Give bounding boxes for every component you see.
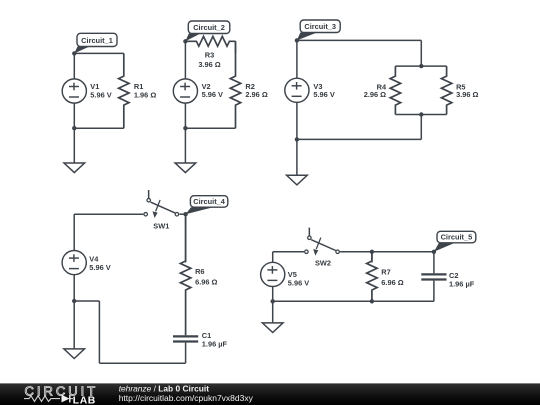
value label R2: [245, 82, 267, 99]
svg-text:3.96 Ω: 3.96 Ω: [198, 60, 220, 69]
wire C1 bottom rail: [74, 127, 124, 129]
wire C4 bottom rail: [99, 362, 185, 364]
value label R1: [134, 82, 156, 99]
node C5 C2 top: [432, 250, 436, 254]
net label Circuit_2: [185, 21, 229, 41]
voltage source V5: [261, 252, 285, 301]
capacitor C2: [421, 274, 446, 279]
svg-text:R7: R7: [381, 268, 390, 277]
wire C2 top lead: [433, 252, 435, 273]
value label V5: [288, 270, 309, 287]
wire C4 right drop: [185, 214, 187, 262]
node C4 bottom: [72, 299, 76, 303]
svg-text:Circuit_3: Circuit_3: [304, 22, 336, 31]
wire C1 bottom lead: [185, 343, 187, 364]
value label V1: [90, 82, 111, 99]
footer background bar: [0, 383, 540, 405]
logo resistor glyph: [24, 396, 60, 402]
svg-text:5.96 V: 5.96 V: [313, 90, 334, 99]
resistor R4: [390, 66, 400, 114]
svg-text:R6: R6: [195, 267, 204, 276]
designator SW2: [315, 259, 331, 268]
svg-text:Circuit_5: Circuit_5: [441, 232, 473, 241]
resistor R2: [230, 41, 240, 128]
wire C3 parallel top bar: [395, 65, 446, 67]
wire C3 top rail: [297, 39, 421, 41]
node C4 top: [183, 212, 187, 216]
ground circuit 5: [262, 301, 283, 332]
node C3 junction top: [419, 64, 423, 68]
wire C3 bottom drop: [420, 115, 422, 140]
svg-text:R3: R3: [205, 51, 214, 60]
resistor R3 (horizontal): [185, 36, 235, 46]
svg-text:2.96 Ω: 2.96 Ω: [245, 90, 267, 99]
resistor R7: [367, 252, 377, 301]
resistor R1: [119, 53, 129, 128]
value label V2: [202, 82, 223, 99]
svg-text:1.96 µF: 1.96 µF: [202, 340, 228, 349]
node C5 R7 bottom: [370, 299, 374, 303]
voltage source V2: [173, 41, 197, 128]
svg-text:Circuit_4: Circuit_4: [193, 197, 226, 206]
voltage source V1: [62, 53, 86, 128]
voltage source V3: [285, 40, 309, 139]
node C3 junction bottom: [419, 112, 423, 116]
wire C4 top rail: [74, 213, 143, 215]
value label V4: [89, 255, 110, 273]
svg-text:LAB: LAB: [73, 395, 96, 405]
wire SW1 to node: [179, 213, 185, 215]
node C3 top: [295, 38, 299, 42]
svg-text:C2: C2: [449, 271, 458, 280]
designator SW1: [153, 222, 169, 231]
wire R7 top lead joint: [371, 252, 373, 263]
node C5 R7 top: [370, 250, 374, 254]
node C5 bottom: [271, 299, 275, 303]
wire C3 bottom rail: [297, 138, 421, 140]
node C2 bottom: [183, 126, 187, 130]
svg-text:Circuit_1: Circuit_1: [81, 36, 113, 45]
wire C3 parallel bottom bar: [395, 114, 446, 116]
value label V3: [313, 82, 334, 99]
resistor R6: [180, 214, 190, 335]
node C2 top: [183, 39, 187, 43]
svg-text:SW2: SW2: [315, 259, 331, 268]
svg-text:6.96 Ω: 6.96 Ω: [381, 278, 403, 287]
value label R4: [364, 83, 387, 100]
ground circuit 3: [287, 139, 308, 185]
svg-text:5.96 V: 5.96 V: [202, 90, 223, 99]
svg-text:2.96 Ω: 2.96 Ω: [364, 90, 386, 99]
switch SW2: [305, 228, 340, 256]
wire C5 top rail: [340, 251, 434, 253]
svg-text:SW1: SW1: [153, 222, 169, 231]
value label R3: [198, 51, 220, 70]
wire C5 bottom rail: [273, 300, 434, 302]
wire C4 left riser: [98, 301, 100, 363]
wire C3 top drop: [420, 40, 422, 66]
wire C1 top rail: [74, 52, 124, 54]
net label Circuit_4: [186, 196, 228, 215]
wire C2 bottom rail: [185, 127, 235, 129]
capacitor C1: [173, 336, 198, 341]
svg-text:1.96 µF: 1.96 µF: [449, 280, 475, 289]
ground circuit 2: [175, 128, 196, 172]
net label Circuit_1: [74, 33, 117, 53]
svg-text:5.96 V: 5.96 V: [89, 263, 110, 272]
svg-text:5.96 V: 5.96 V: [90, 90, 111, 99]
wire C4 node stub: [74, 300, 99, 302]
svg-text:1.96 Ω: 1.96 Ω: [134, 90, 156, 99]
value label R5: [456, 83, 478, 100]
logo diode glyph: [62, 395, 74, 403]
voltage source V4: [62, 214, 86, 301]
ground circuit 1: [64, 128, 85, 172]
svg-text:6.96 Ω: 6.96 Ω: [195, 278, 217, 287]
ground circuit 4: [64, 301, 85, 359]
svg-text:Circuit_2: Circuit_2: [193, 23, 225, 32]
resistor R5: [441, 66, 451, 114]
node C3 bottom: [295, 137, 299, 141]
node C1 bottom: [72, 126, 76, 130]
svg-text:http://circuitlab.com/cpukn7vx: http://circuitlab.com/cpukn7vx8d3xy: [119, 393, 254, 403]
svg-text:C1: C1: [202, 331, 211, 340]
switch SW1: [144, 190, 179, 218]
node C1 top: [72, 51, 76, 55]
wire R2 top lead joint: [235, 41, 237, 53]
wire C5 top left: [273, 251, 304, 253]
value label R7: [381, 268, 403, 287]
wire C2 bottom lead: [433, 281, 435, 302]
svg-text:tehranze / Lab 0 Circuit: tehranze / Lab 0 Circuit: [119, 383, 210, 393]
net label Circuit_3: [297, 20, 340, 40]
net label Circuit_5: [434, 231, 476, 252]
value label R6: [195, 267, 217, 286]
value label C2: [449, 271, 475, 289]
svg-text:3.96 Ω: 3.96 Ω: [456, 90, 478, 99]
value label C1: [202, 331, 228, 349]
svg-text:5.96 V: 5.96 V: [288, 278, 309, 287]
